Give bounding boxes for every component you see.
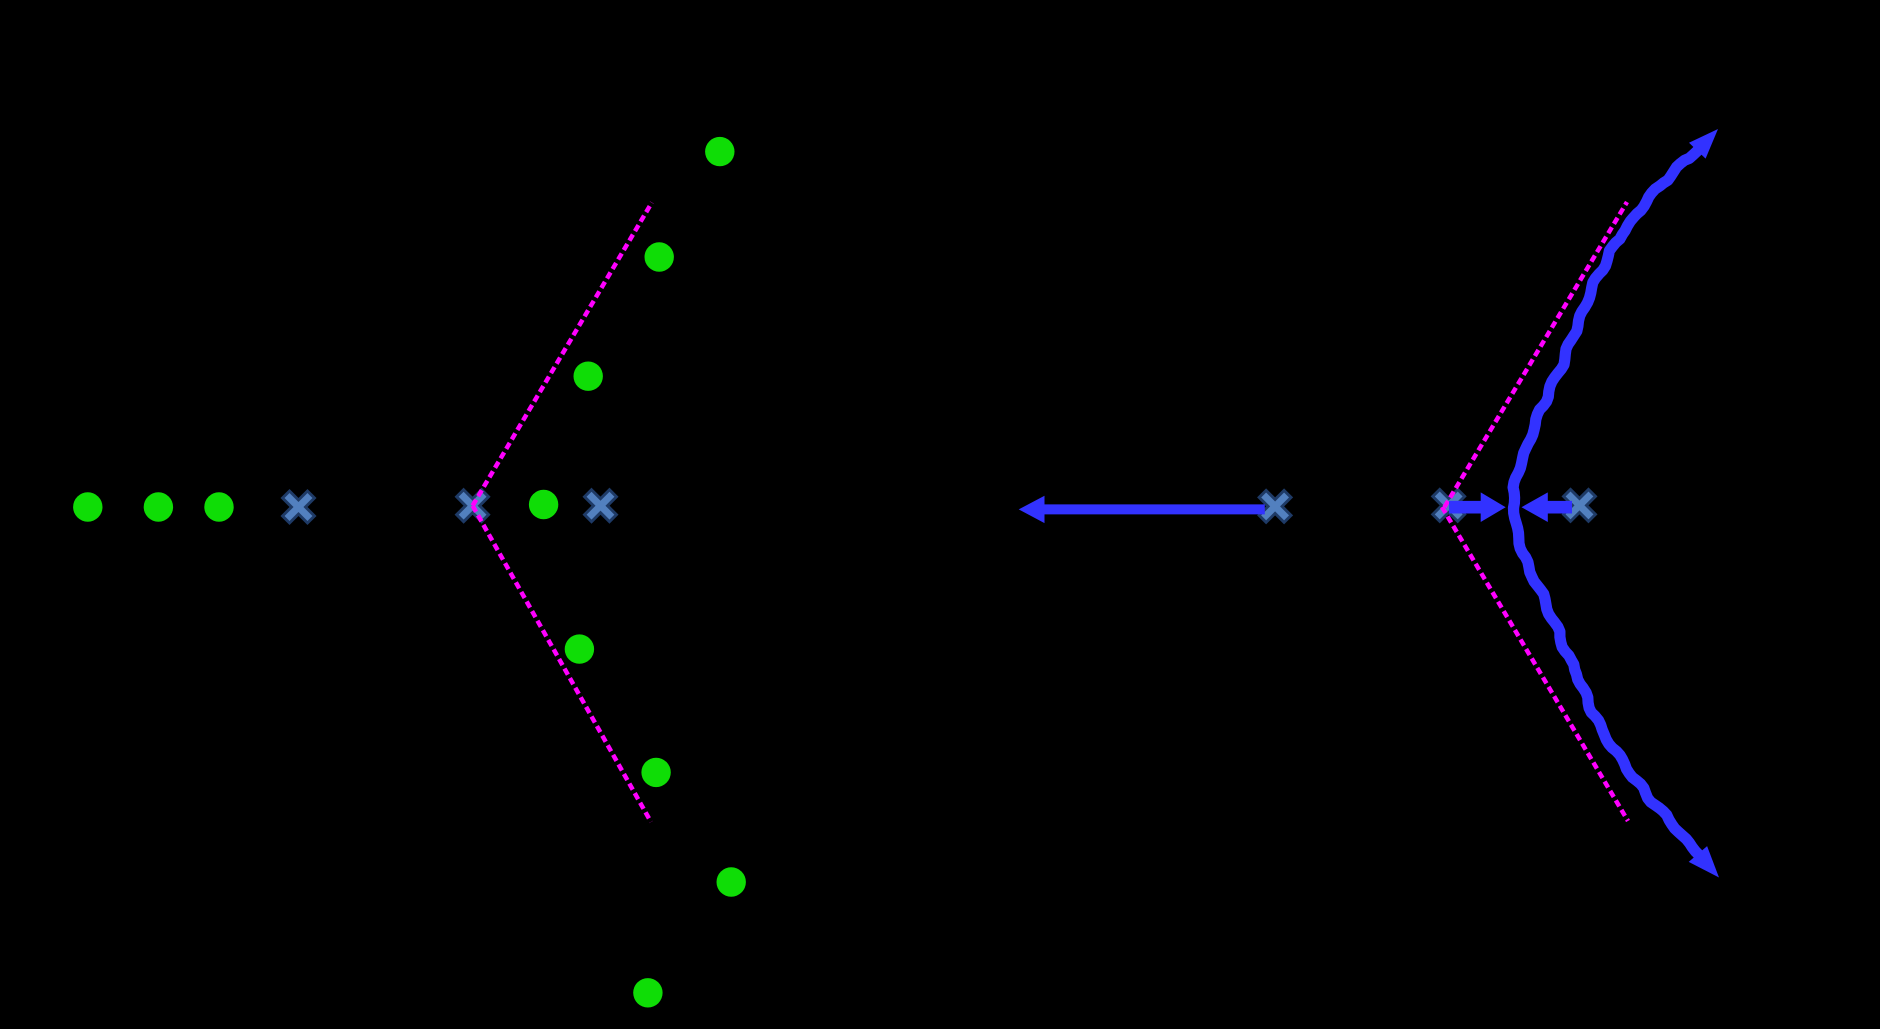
asymptote dashed line -60deg (right sketch) xyxy=(1442,507,1628,821)
pole marker X2 (asymptote centroid, left sketch) xyxy=(448,481,498,531)
pole marker X5 xyxy=(1424,480,1474,530)
asymptote dashed line +60deg (left sketch) xyxy=(473,203,652,506)
small arrow from right pole toward breakaway xyxy=(1522,492,1573,522)
arrowhead of lower branch xyxy=(1689,846,1719,877)
zero marker O1 xyxy=(73,492,102,521)
root locus branch going up (wavy) xyxy=(1513,144,1704,508)
pole marker X4 xyxy=(1250,481,1300,531)
small arrow from left pole toward breakaway xyxy=(1449,492,1506,522)
real-axis locus arrow pointing left xyxy=(1019,496,1265,523)
pole marker X3 xyxy=(576,481,626,531)
zero marker O8 xyxy=(565,634,594,663)
zero marker O6 xyxy=(645,242,674,271)
zero marker O11 xyxy=(633,978,662,1007)
zero marker O4 xyxy=(529,490,558,519)
zero marker O9 xyxy=(641,758,670,787)
pole marker X6 xyxy=(1555,480,1605,530)
breakaway point join xyxy=(1509,506,1519,510)
root locus branch going down (wavy) xyxy=(1514,508,1700,855)
zero marker O7 xyxy=(705,137,734,166)
zero marker O2 xyxy=(144,492,173,521)
asymptote dashed line +60deg (right sketch) xyxy=(1445,202,1628,507)
zero marker O5 xyxy=(574,362,603,391)
zero marker O3 xyxy=(204,492,233,521)
arrowhead of upper branch xyxy=(1689,129,1718,159)
pole marker X1 xyxy=(274,482,324,532)
asymptote dashed line -60deg (left sketch) xyxy=(473,506,651,822)
zero marker O10 xyxy=(717,867,746,896)
